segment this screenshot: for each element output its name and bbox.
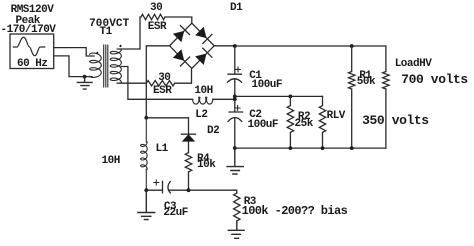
resistor R3 — [234, 193, 240, 221]
diode designator D2 — [207, 126, 219, 137]
transformer value 700VCT — [89, 19, 129, 30]
node dots bottom rail — [233, 146, 237, 150]
node primary-bottom/ground junction — [83, 75, 87, 79]
wire D2 to R4 — [188, 142, 190, 153]
transformer T1 secondary winding — [110, 49, 121, 82]
source label RMS120V — [11, 5, 54, 16]
wire R4 to C3 node — [188, 172, 190, 190]
node R4/C3 junction — [187, 188, 191, 192]
ground at source — [77, 77, 92, 90]
wire secondary bottom to ESR2 — [117, 82, 146, 84]
resistor designator R1 — [359, 71, 371, 82]
ground under L1 — [138, 190, 155, 219]
capacitor C1 — [228, 46, 242, 96]
value 50k (R1) — [357, 77, 375, 88]
diode D1b top-right — [195, 27, 206, 38]
diode D2 triangle — [182, 134, 196, 141]
resistor ESR top 30 ohm — [141, 14, 165, 19]
resistor RLV — [319, 96, 325, 148]
wire ESR2 to bridge bottom vertex — [175, 68, 192, 83]
value 30 (top ESR) — [150, 3, 162, 14]
node voltage label 350 volts — [362, 114, 429, 127]
plus sign C1 — [236, 67, 241, 72]
capacitor C2 — [228, 99, 243, 148]
capacitor designator C1 — [249, 71, 261, 82]
AC source box — [10, 34, 54, 69]
node C1 top — [233, 44, 237, 48]
bridge rectifier D1 diamond — [170, 23, 215, 68]
sine wave symbol — [13, 37, 44, 56]
value 100uF (C2) — [248, 120, 279, 131]
label ESR (bottom) — [153, 86, 171, 97]
value 100uF (C1) — [252, 80, 283, 91]
bridge designator D1 — [230, 3, 242, 14]
node R2 top — [289, 95, 293, 99]
inductor designator L2 — [195, 110, 207, 121]
wire ESR to bridge top vertex — [165, 17, 192, 23]
diode D1c bottom-left — [173, 49, 184, 60]
resistor R4 — [185, 153, 191, 172]
source label -170/170V — [1, 25, 56, 36]
node C1 bottom / L2 — [233, 95, 237, 99]
node R1 top — [350, 44, 354, 48]
value 10H (L1) — [102, 156, 120, 167]
value 10k (R4) — [197, 160, 215, 171]
ground under C2 rail — [227, 148, 243, 174]
top rail — [235, 45, 386, 47]
resistor designator R4 — [197, 154, 209, 165]
plus sign C2 — [235, 106, 240, 111]
load label LoadHV — [395, 59, 432, 70]
wire source bottom to primary bottom — [54, 56, 92, 77]
inductor designator L1 — [156, 144, 168, 155]
transformer T1 primary winding — [90, 53, 102, 77]
capacitor designator C2 — [249, 110, 261, 121]
transformer T1 designator — [100, 27, 112, 38]
value 22uF (C3) — [163, 208, 187, 219]
resistor designator RLV — [327, 111, 345, 122]
node bridge-left branch — [144, 116, 148, 120]
wire L2 to C-branch node — [213, 98, 235, 100]
value 10H (L2) — [194, 86, 212, 97]
resistor LoadHV — [383, 46, 389, 148]
capacitor designator C3 — [164, 202, 176, 213]
resistor designator R3 — [244, 197, 256, 208]
node voltage label 700 volts — [401, 73, 468, 86]
plus sign C3 — [154, 180, 159, 185]
wire bridge right vertex to rail — [214, 45, 235, 47]
value/note 100k -200?? bias (R3) — [242, 205, 348, 217]
wire bridge left vertex down — [146, 46, 169, 118]
resistor designator R2 — [298, 112, 310, 123]
resistor R2 — [287, 96, 293, 148]
diode D1a top-left — [173, 31, 184, 42]
source label Peak — [16, 16, 40, 27]
source frequency label 60 Hz — [17, 59, 48, 70]
wire center tap down to L2 line — [121, 67, 193, 100]
wire secondary top to ESR — [117, 17, 140, 49]
phase dot secondary — [119, 45, 121, 47]
inductor L1 — [141, 118, 148, 190]
value 25k (R2) — [295, 119, 313, 130]
ground under R3 — [228, 221, 244, 238]
value 30 (bottom ESR) — [158, 73, 170, 84]
wire node to diode D2 — [146, 118, 188, 134]
diode D2 cathode bar — [181, 133, 195, 135]
resistor ESR bottom 30 ohm — [146, 81, 175, 86]
bottom rail — [235, 147, 386, 149]
node L1/C3 junction — [144, 188, 148, 192]
inductor L2 10H — [193, 97, 213, 104]
label ESR (top) — [148, 22, 166, 33]
transformer T1 core — [104, 45, 108, 87]
capacitor C3 — [146, 181, 188, 193]
wire source top to primary top — [54, 48, 94, 56]
resistor R1 — [349, 46, 355, 148]
phase dot primary — [96, 52, 98, 54]
diode D1d bottom-right — [195, 54, 206, 65]
mid rail — [235, 95, 323, 97]
wire to R3 — [189, 190, 237, 193]
